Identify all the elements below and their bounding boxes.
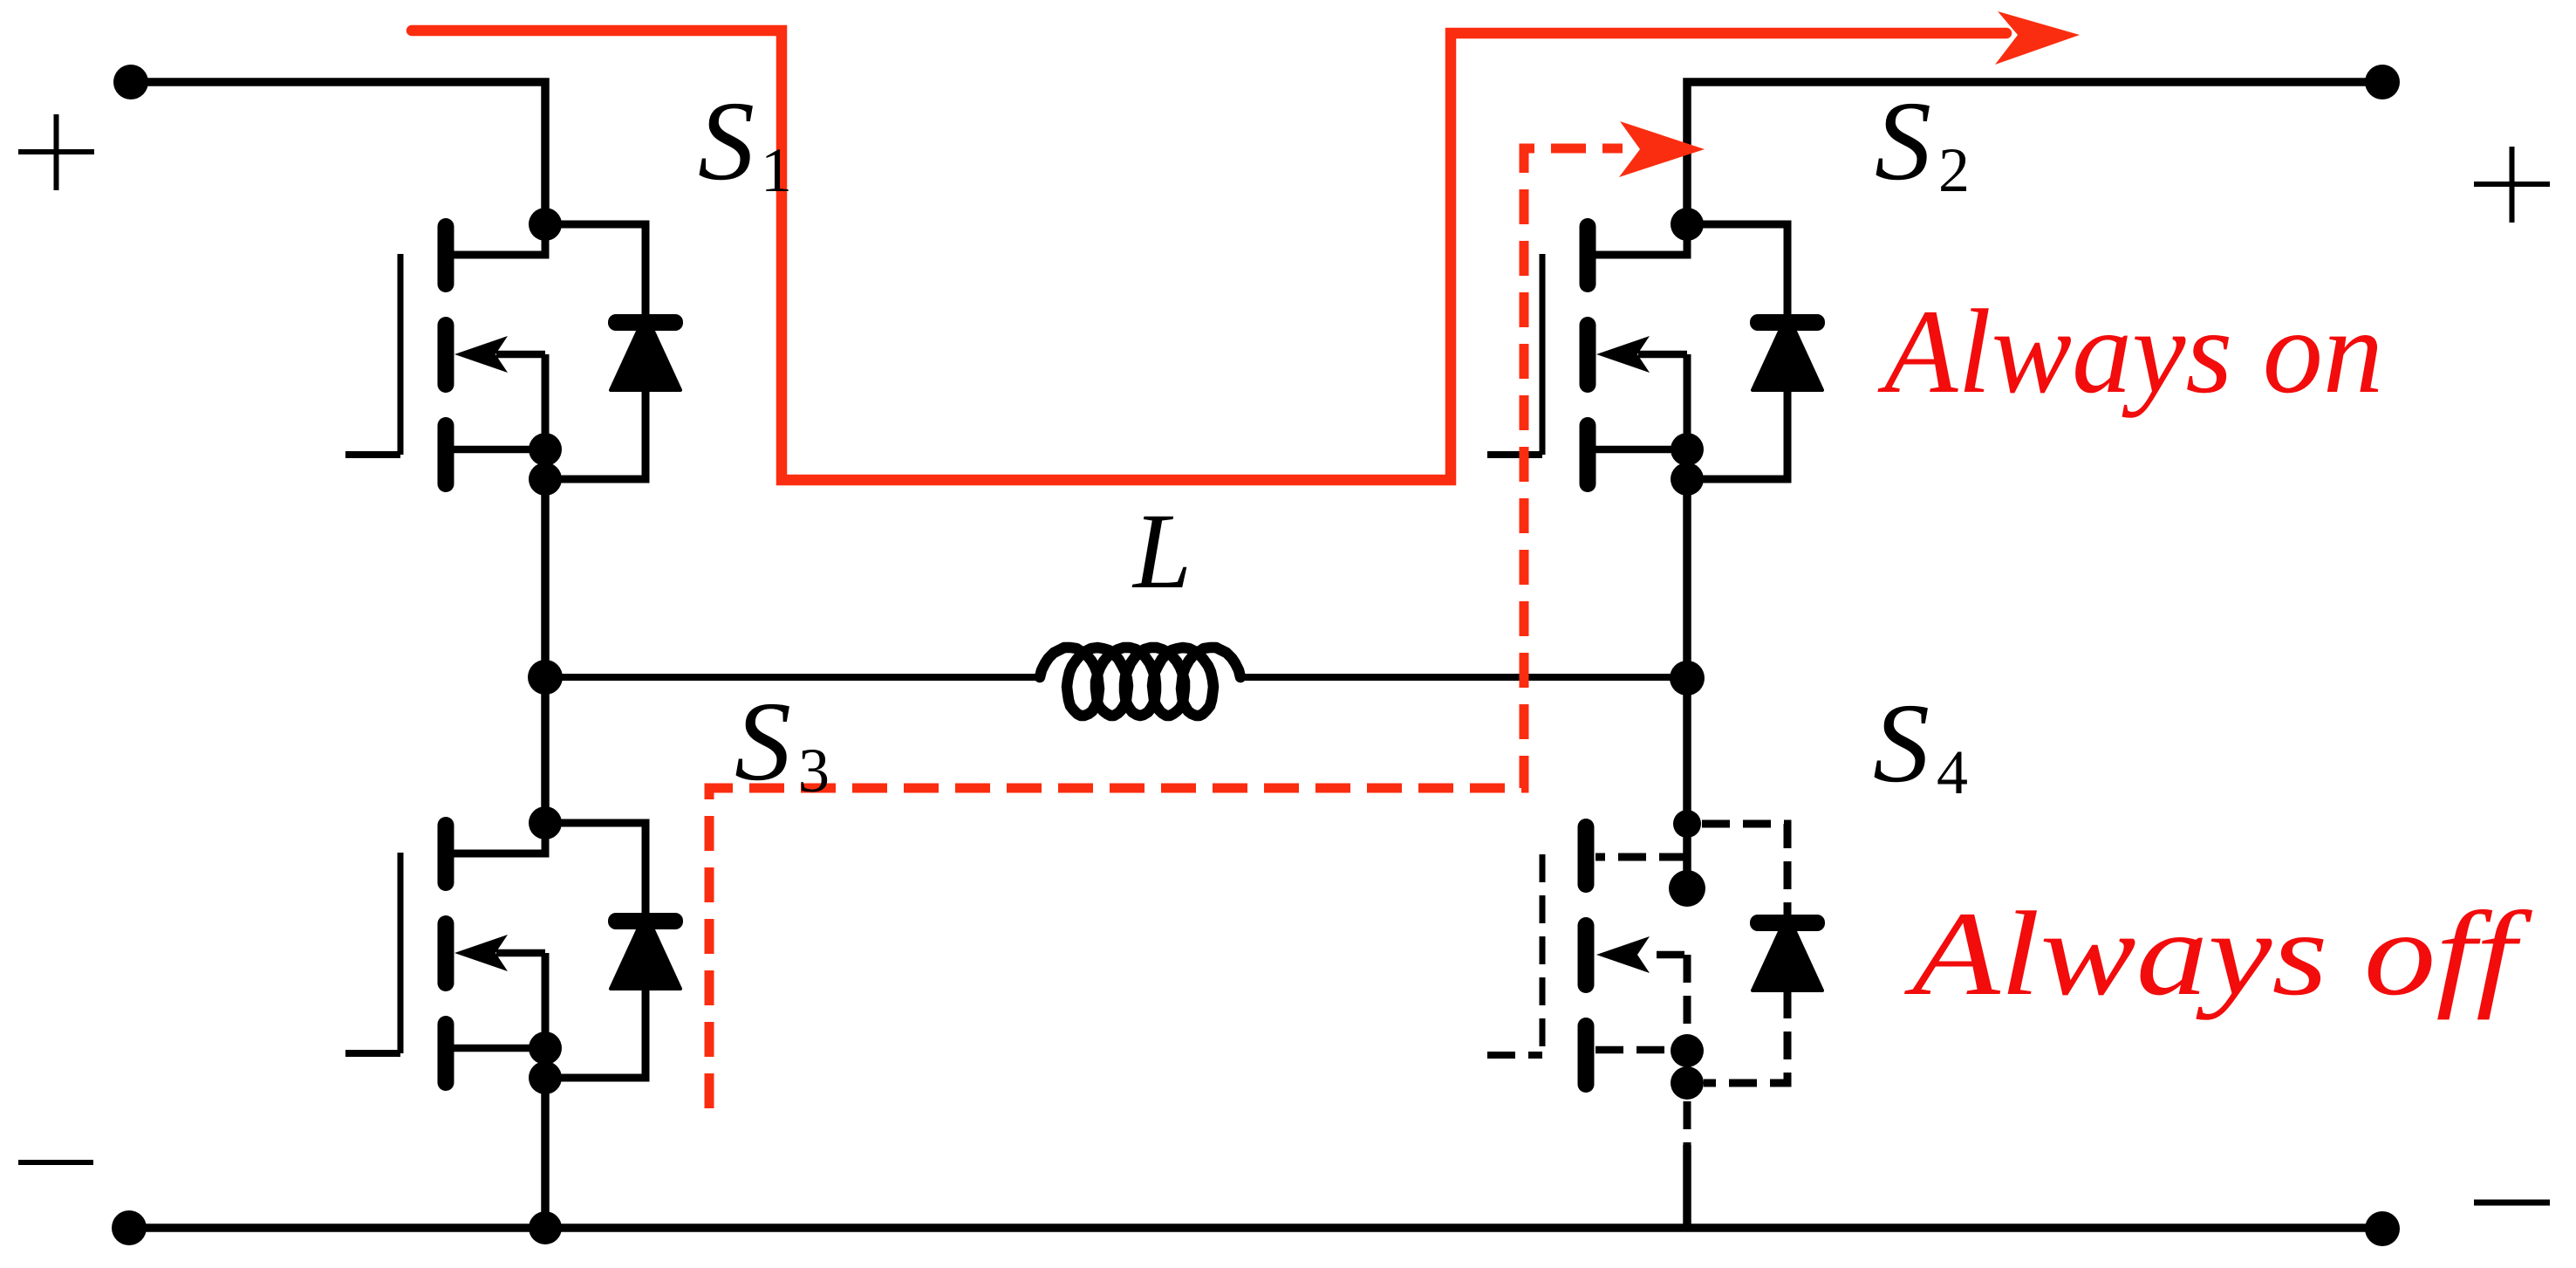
output positive terminal dot — [2365, 65, 2400, 99]
S4 drain lead wire — [1595, 853, 1687, 861]
S4 source stub dashed — [1684, 1101, 1691, 1148]
wire node A to inductor — [545, 674, 1040, 681]
plus sign input — [18, 114, 94, 190]
S4 source internal wire — [1684, 955, 1691, 1051]
S4 drain node dot — [1669, 870, 1705, 907]
wire S1 source to node A — [541, 479, 550, 677]
S4 diode branch node dot — [1673, 810, 1701, 838]
S4 source node dot — [1671, 1034, 1704, 1067]
transistor S2 — [1487, 208, 1825, 496]
red dashed path arrowhead — [1619, 121, 1705, 177]
node S3 source at bottom rail — [529, 1211, 562, 1244]
svg-text:S: S — [1875, 79, 1931, 204]
inductor L coil — [1040, 648, 1240, 716]
node B (right inductor junction) — [1670, 661, 1705, 696]
wire top-right rail from S2 drain — [1687, 82, 2382, 224]
S4 gate electrode line — [1540, 854, 1546, 1055]
input negative terminal dot — [112, 1210, 147, 1245]
S4 channel bar body — [1578, 917, 1595, 993]
S4 body diode branch wire — [1702, 824, 1787, 1083]
svg-text:Always on: Always on — [1877, 284, 2383, 418]
transistor S3 — [345, 806, 683, 1094]
wire node B to S4 drain (solid) — [1683, 678, 1691, 888]
S4 gate lead wire — [1487, 1052, 1542, 1059]
wire S3 source to bottom rail — [541, 1078, 550, 1228]
wire inductor to node B — [1240, 674, 1687, 681]
svg-text:3: 3 — [798, 736, 830, 805]
input positive terminal dot — [113, 65, 148, 99]
node A (left inductor junction) — [528, 660, 563, 695]
svg-text:L: L — [1131, 491, 1192, 611]
S4 channel bar drain — [1578, 819, 1595, 893]
svg-text:2: 2 — [1938, 135, 1970, 205]
minus sign output — [2474, 1200, 2550, 1206]
S4 channel bar source — [1578, 1018, 1595, 1093]
transistor S4 dashed wires — [1487, 824, 1787, 1148]
transistor S1 — [345, 208, 683, 496]
svg-text:S: S — [1873, 681, 1930, 806]
svg-text:4: 4 — [1937, 737, 1968, 807]
S4 source lead wire — [1595, 1046, 1687, 1054]
output negative terminal dot — [2365, 1211, 2400, 1246]
wire node A to S3 drain — [541, 677, 550, 823]
S4 diode return node dot — [1671, 1066, 1704, 1100]
S4 diode cathode bar — [1750, 915, 1825, 931]
S4 body arrowhead — [1596, 936, 1650, 973]
wire S4 source stub to bottom rail (solid) — [1683, 1145, 1691, 1228]
svg-text:S: S — [698, 79, 755, 204]
wire red dashed current path (freewheel) — [709, 148, 1623, 1108]
S4 diode triangle — [1753, 915, 1822, 990]
minus sign input — [18, 1160, 93, 1165]
wire red solid current path (boost on-state) — [412, 31, 2006, 480]
svg-text:Always off: Always off — [1903, 887, 2532, 1020]
svg-text:S: S — [735, 679, 791, 805]
svg-text:1: 1 — [761, 135, 792, 205]
plus sign output — [2474, 147, 2550, 223]
red solid path arrowhead — [1995, 11, 2080, 65]
S4 body arrow wire — [1645, 951, 1684, 959]
wire S2 source to node B — [1683, 479, 1691, 677]
wire bottom rail — [129, 1223, 2382, 1232]
wire top-left rail to S1 drain — [131, 82, 545, 224]
